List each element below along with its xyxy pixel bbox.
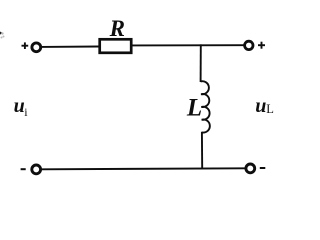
svg-text:R: R [109,16,125,41]
wire inductor bottom stub [201,132,203,169]
minus sign bottom-left [21,168,26,170]
terminal top-right [245,41,253,49]
wire bottom segment [42,168,246,169]
plus sign top-left [22,42,29,49]
svg-text:L: L [186,94,202,121]
svg-text:u: u [255,95,266,117]
wire top-right segment [132,44,244,46]
svg-text:u: u [14,95,25,117]
terminal top-left [32,43,41,52]
svg-text:L: L [266,102,274,116]
inductor L1 coil [201,81,210,132]
minus sign bottom-right [260,167,266,169]
resistor R1 body [100,39,132,53]
left-edge scan artifact [0,32,2,35]
plus sign top-right [258,42,265,49]
wire top-left segment [42,46,99,48]
terminal bottom-right [246,164,255,173]
wire inductor top stub [200,44,202,82]
terminal bottom-left [32,165,41,174]
